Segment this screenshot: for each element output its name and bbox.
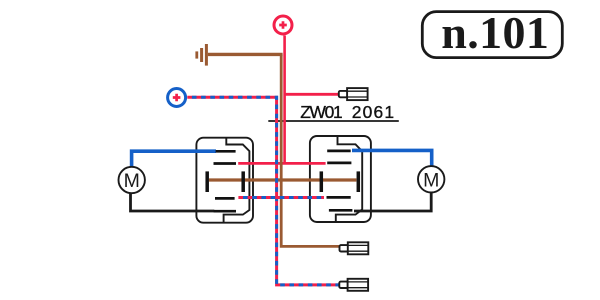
wire red vertical from B+ supply (283, 36, 286, 165)
terminal T1 (faston, red feed) (339, 88, 368, 100)
X2 pin1 contact (327, 150, 351, 153)
X2 pin3 contacts (320, 171, 324, 192)
svg-text:n.101: n.101 (441, 7, 549, 58)
svg-text:M: M (124, 170, 140, 192)
wire brown from ground (horizontal) (208, 53, 283, 56)
X2 pin4 contact (327, 196, 351, 199)
X1 pin3 contacts (205, 171, 209, 192)
battery positive supply B+ (red) (274, 16, 292, 34)
X1 pin4 contact (215, 197, 235, 200)
wire red branch to terminal T1 (285, 93, 340, 96)
X1 pin5 contact (214, 210, 236, 213)
svg-text:M: M (423, 169, 439, 191)
wire blue/red dashed from second supply to terminal T3 (187, 97, 340, 285)
X2 pin5 contact (329, 209, 353, 212)
battery positive supply 2 (blue circle, red plus) (168, 89, 186, 107)
diagram number box n.101 (422, 7, 562, 58)
wire blue/red dashed row4 linking X1 pin4 and X2 pin4 (238, 196, 324, 199)
motor M2 (418, 166, 444, 192)
terminal T3 (faston, blue/red) (339, 279, 368, 291)
svg-text:ZW01: ZW01 (300, 102, 342, 122)
X1 pin1 contact (216, 150, 236, 153)
X1 pin2 contact (214, 162, 237, 165)
wire black left motor M1 to X1 pin5 (131, 193, 215, 211)
wire blue right motor M2 to X2 pin1 (352, 150, 432, 166)
wire red row2 linking X1 pin2 and X2 pin2 (238, 162, 325, 165)
motor M1 (119, 167, 145, 193)
svg-text:2061: 2061 (352, 102, 396, 122)
ground G1 (chassis, brown) (197, 44, 207, 66)
wire black right motor M2 to X2 pin5 (354, 192, 431, 211)
label ZW01 2061 (300, 102, 395, 122)
X2 pin2 contact (327, 162, 351, 165)
wire brown vertical down to terminal T2 (281, 54, 340, 246)
underline of label ZW01 2061 (268, 120, 399, 122)
wire brown row3 linking X1 pin3 and X2 pin3 (209, 178, 356, 181)
connector X1 housing (196, 138, 253, 223)
wire blue left motor M1 to X1 pin1 (132, 151, 216, 167)
connector X2 housing (310, 136, 371, 222)
terminal T2 (faston, brown) (340, 242, 369, 254)
